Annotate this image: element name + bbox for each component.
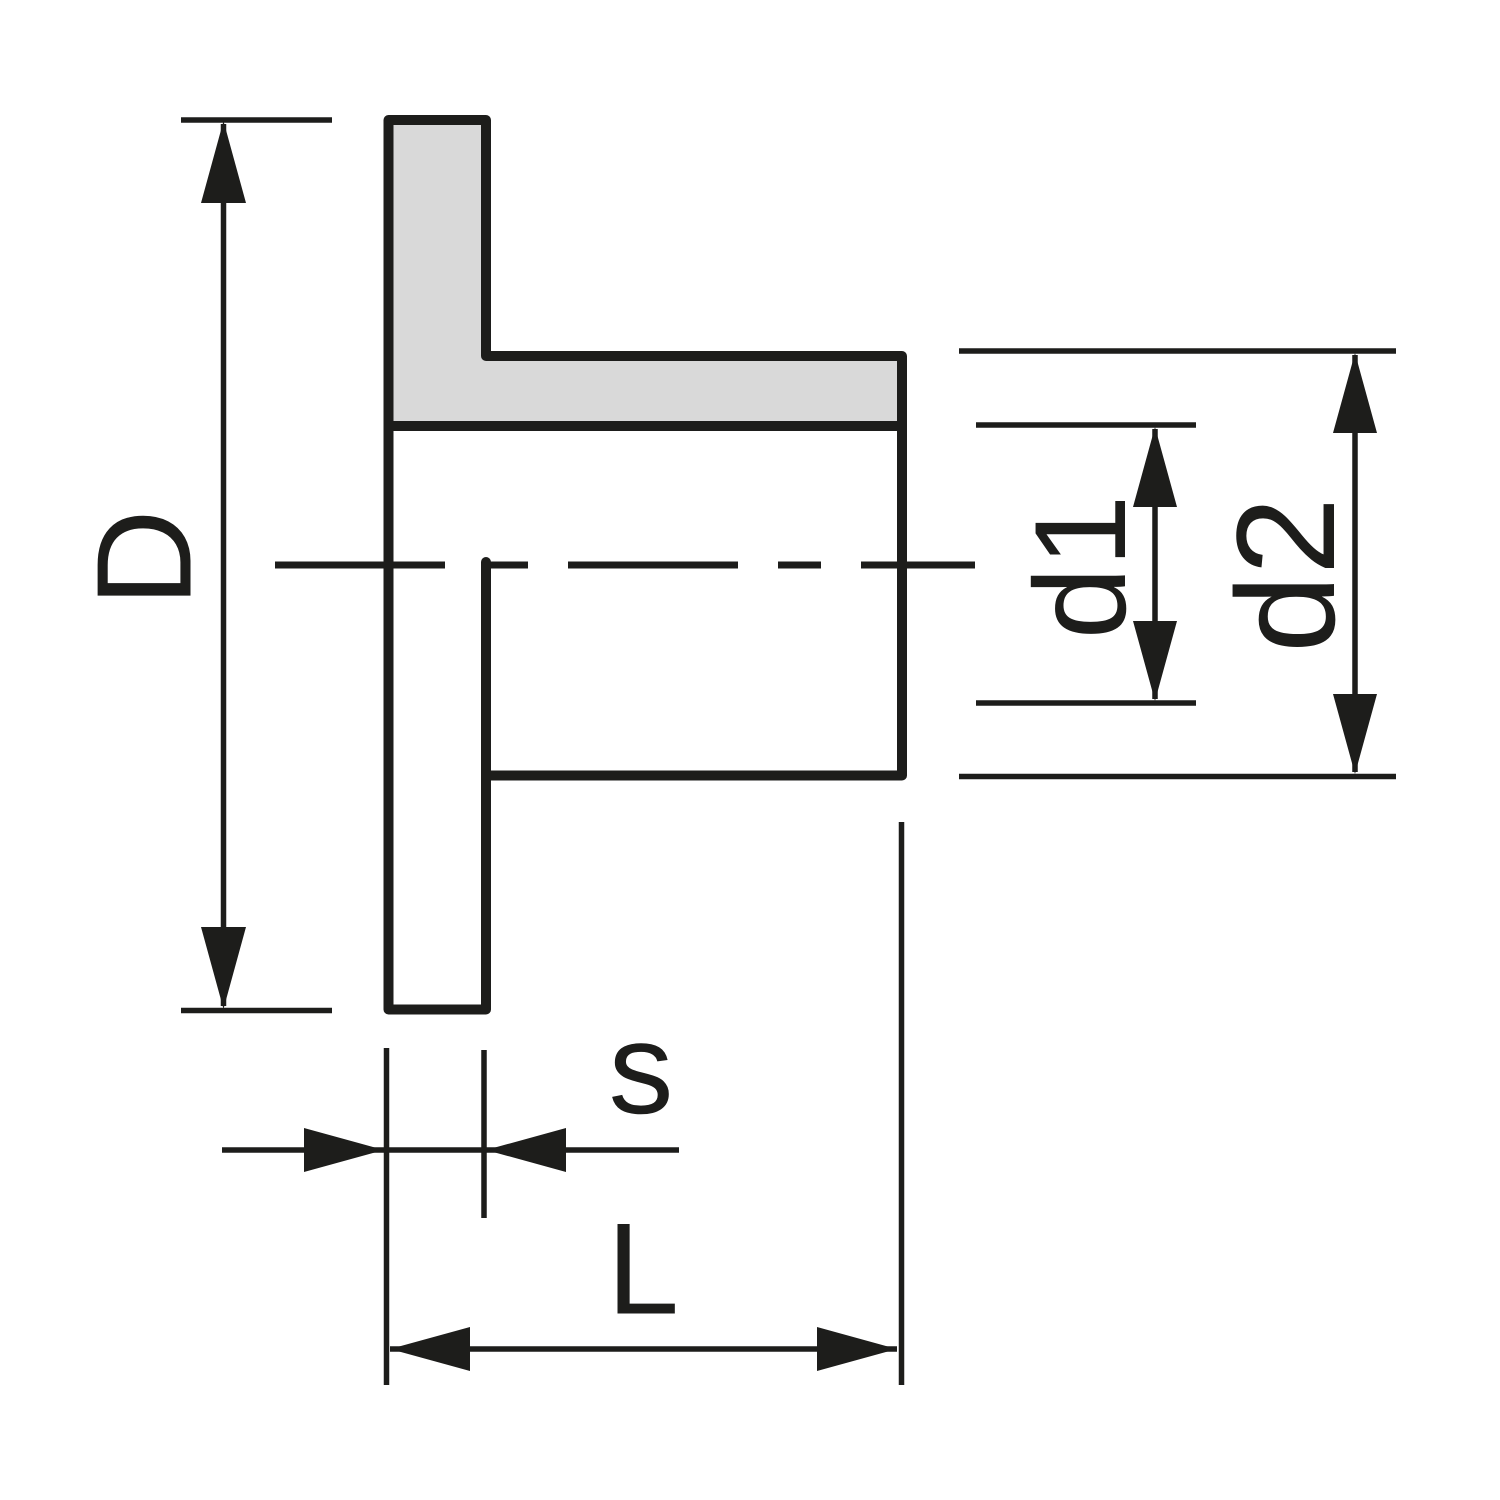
svg-text:L: L xyxy=(607,1196,679,1342)
dimension line L xyxy=(390,1346,897,1352)
bore line d1 (top half section) xyxy=(389,421,903,431)
extension line s/L left xyxy=(384,1048,390,1385)
dimension line s xyxy=(222,1147,679,1153)
extension line L right xyxy=(899,822,905,1385)
extension line d2 top xyxy=(959,348,1396,354)
flange outline xyxy=(389,120,487,1010)
arrowhead D down xyxy=(201,927,246,1009)
centerline (dash-dot axis) xyxy=(275,562,975,569)
svg-text:d2: d2 xyxy=(1207,497,1364,653)
arrowhead L right xyxy=(817,1327,897,1371)
svg-text:D: D xyxy=(69,509,220,607)
arrowhead d2 down xyxy=(1333,694,1377,774)
svg-text:s: s xyxy=(609,995,674,1141)
extension line s right xyxy=(481,1050,487,1218)
extension line d1 top xyxy=(976,422,1196,428)
dimension line D xyxy=(221,124,227,1006)
arrowhead D up xyxy=(201,121,246,203)
arrowhead s right xyxy=(486,1128,566,1172)
arrowhead d1 down xyxy=(1133,621,1177,701)
extension line D bottom xyxy=(181,1008,332,1014)
dimension line d2 xyxy=(1352,355,1358,772)
sleeve (body) outline xyxy=(486,356,902,776)
extension line d1 bottom xyxy=(976,700,1196,706)
arrowhead d2 up xyxy=(1333,353,1377,433)
dimension line d1 xyxy=(1152,429,1158,699)
section fill (gray L-shape of flange + sleeve wall) xyxy=(389,120,903,426)
extension line d2 bottom xyxy=(959,774,1396,780)
svg-text:d1: d1 xyxy=(1007,495,1153,640)
extension line D top xyxy=(181,117,332,123)
arrowhead L left xyxy=(390,1327,470,1371)
arrowhead d1 up xyxy=(1133,427,1177,507)
arrowhead s left xyxy=(304,1128,384,1172)
